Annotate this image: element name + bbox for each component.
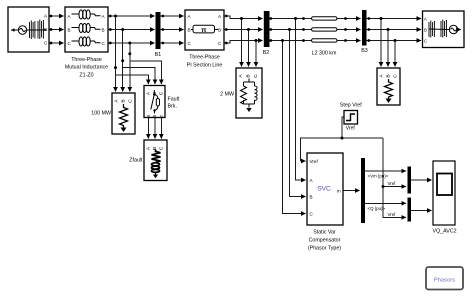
svg-text:C: C [424,38,427,43]
svg-text:B3: B3 [361,48,368,54]
svg-text:Fault: Fault [168,96,180,102]
svg-text:Z1-Z0: Z1-Z0 [79,72,93,78]
svg-text:Three-Phase: Three-Phase [189,55,220,61]
svg-text:C: C [128,99,134,103]
svg-text:B: B [68,27,71,32]
svg-text:Step Vref: Step Vref [340,102,362,108]
svg-text:B: B [246,74,252,77]
svg-text:m: m [337,189,341,194]
svg-text:Zfault: Zfault [129,158,143,164]
svg-text:Static Var: Static Var [313,230,336,236]
svg-text:Vref: Vref [310,159,319,164]
svg-text:Vref: Vref [388,212,397,217]
svg-text:B: B [310,195,313,200]
svg-text:Three-Phase: Three-Phase [71,57,102,63]
svg-text:Compensator: Compensator [309,238,341,244]
svg-text:a: a [147,114,152,117]
svg-text:<Q (pu)>: <Q (pu)> [368,206,386,211]
svg-text:B: B [121,99,127,102]
svg-text:Vref: Vref [388,181,397,186]
svg-text:C: C [158,91,164,95]
svg-text:2 MW: 2 MW [220,92,234,98]
svg-text:B1: B1 [155,52,162,58]
svg-text:B2: B2 [263,50,270,56]
svg-text:Mutual Inductance: Mutual Inductance [65,65,108,71]
svg-text:B: B [188,27,191,32]
svg-text:C: C [393,74,399,78]
svg-text:(Phasor Type): (Phasor Type) [308,246,341,252]
svg-text:Vref: Vref [346,125,356,131]
svg-text:B: B [386,74,392,77]
svg-text:VQ_AVC2: VQ_AVC2 [432,229,456,235]
svg-text:B: B [218,27,221,32]
svg-text:B: B [102,27,105,32]
svg-text:C: C [158,146,164,150]
svg-text:100 MW: 100 MW [91,111,111,117]
svg-text:<Vm (pu)>: <Vm (pu)> [368,174,389,179]
svg-text:A: A [424,16,427,21]
svg-text:Phasors: Phasors [434,278,455,284]
svg-text:SVC: SVC [317,186,331,193]
svg-text:π: π [201,27,207,34]
svg-text:C: C [253,74,259,78]
svg-text:Brk.: Brk. [168,104,177,110]
svg-text:b: b [152,114,158,117]
svg-text:L2 300 km: L2 300 km [312,51,337,57]
svg-text:B: B [424,27,427,32]
svg-text:PI Section Line: PI Section Line [187,62,223,68]
